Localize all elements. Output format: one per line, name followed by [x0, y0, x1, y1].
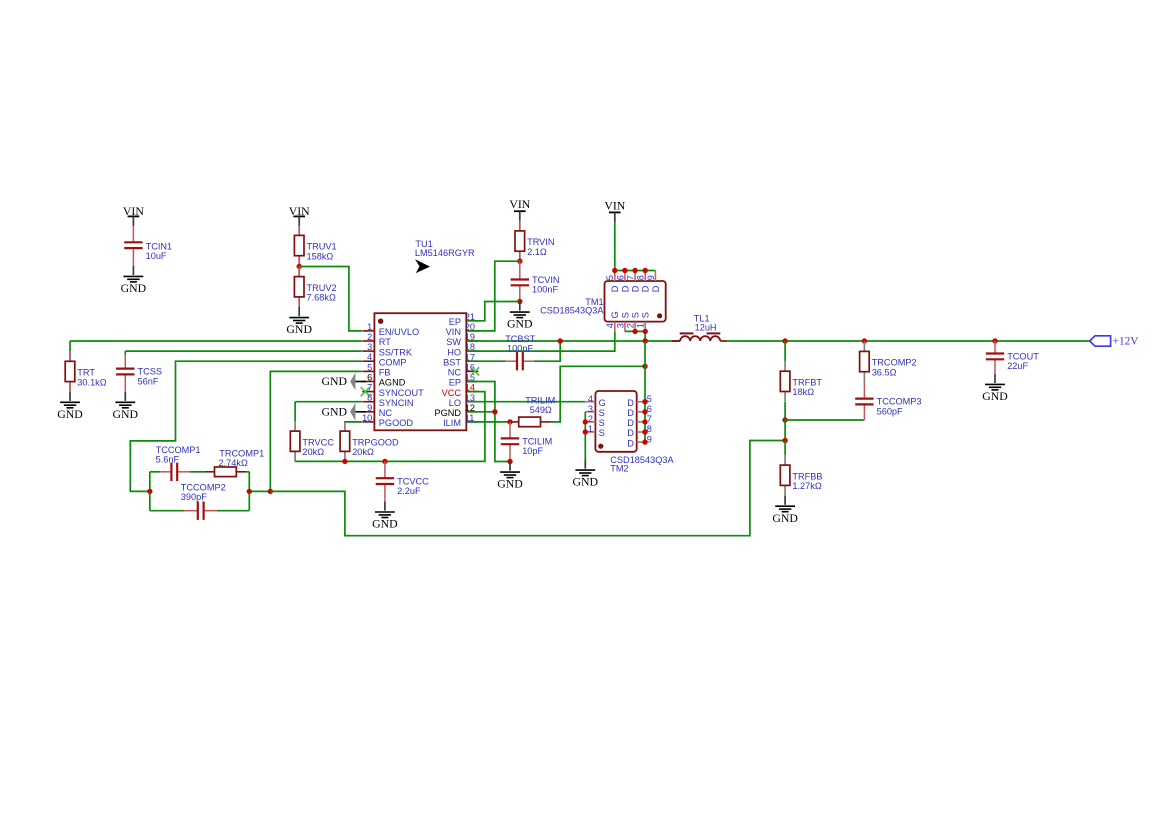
wire HO net to TM1 gate [467, 331, 615, 351]
svg-text:20kΩ: 20kΩ [352, 447, 374, 457]
svg-text:D: D [627, 418, 634, 428]
resistor TRUV2 7.68k [298, 267, 300, 277]
junction TM2 source S1 [583, 429, 588, 434]
svg-text:LM5146RGYR: LM5146RGYR [415, 248, 475, 258]
svg-text:GND: GND [321, 374, 347, 388]
TM1 pin 8 D [644, 271, 646, 282]
junction TRVIN/TCVIN [517, 259, 522, 264]
wire SYNCIN net horizontal [295, 401, 362, 403]
wire comp network left rail [149, 472, 151, 511]
wire comp network right rail [248, 472, 250, 511]
svg-text:EN/UVLO: EN/UVLO [379, 327, 419, 337]
svg-text:D: D [610, 285, 620, 292]
svg-text:18kΩ: 18kΩ [792, 387, 814, 397]
resistor TRCOMP1 2.74k [206, 471, 215, 473]
wire PGND net [467, 411, 495, 413]
svg-text:22uF: 22uF [1007, 361, 1028, 371]
TM1 pin 6 D [624, 271, 626, 282]
svg-text:TRCOMP1: TRCOMP1 [219, 448, 264, 458]
svg-text:TRPGOOD: TRPGOOD [352, 437, 399, 447]
IC pin 17 BST [466, 360, 478, 362]
svg-text:CSD18543Q3A: CSD18543Q3A [540, 305, 604, 315]
svg-text:20kΩ: 20kΩ [302, 447, 324, 457]
ground below TRUV2 [298, 307, 300, 316]
junction TCILIM bottom [507, 459, 512, 464]
svg-text:3: 3 [367, 342, 372, 352]
svg-text:RT: RT [379, 337, 391, 347]
svg-text:8: 8 [636, 275, 646, 280]
svg-text:S: S [641, 312, 651, 318]
capacitor TCVCC 2.2uF [384, 461, 386, 478]
junction TM1 drain pin at x=614.8 [612, 268, 617, 273]
wire FB feedback long wire [270, 441, 783, 536]
ground below TRT [69, 392, 71, 401]
wire EN/UVLO net [299, 267, 362, 331]
junction TM2 drain row 421.9 [642, 419, 647, 424]
svg-text:6: 6 [615, 275, 625, 280]
junction TRPGOOD bottom on VCC rail [342, 459, 347, 464]
svg-text:TRILIM: TRILIM [525, 395, 555, 405]
transistor Q2 TM2 CSD18543Q3A body [595, 391, 636, 452]
junction TM2 source S2 [583, 419, 588, 424]
junction TRUV1/TRUV2/EN [297, 264, 302, 269]
svg-text:TCSS: TCSS [138, 367, 163, 377]
resistor TRILIM 549 [510, 421, 519, 423]
junction SW sense junction [642, 364, 647, 369]
junction TM2 drain row 442.1 [642, 439, 647, 444]
IC pin 7 SYNCOUT [362, 391, 374, 393]
resistor TRPGOOD 20k [344, 421, 346, 431]
pin-1 marker TM2 [598, 444, 603, 449]
TM2 pin 3 S [585, 411, 595, 413]
TM1 pin 3 S [624, 322, 626, 332]
svg-text:D: D [631, 285, 641, 292]
svg-text:9: 9 [646, 275, 656, 280]
svg-text:SYNCIN: SYNCIN [379, 398, 414, 408]
capacitor TCCOMP2 390pF [184, 510, 198, 512]
junction TM1 drain pin at x=624.9 [622, 268, 627, 273]
TM1 pin 4 G [614, 322, 616, 332]
svg-text:FB: FB [379, 368, 391, 378]
ground below TCVCC [384, 501, 386, 510]
capacitor TCCOMP3 560pF [863, 382, 865, 399]
svg-text:390pF: 390pF [181, 492, 207, 502]
junction TM1 source corner [643, 329, 648, 334]
svg-text:EP: EP [449, 378, 461, 388]
svg-text:TRT: TRT [77, 368, 95, 378]
svg-text:TCIN1: TCIN1 [146, 241, 173, 251]
orientation arrow marker [415, 259, 430, 273]
ground below TCILIM [509, 462, 511, 471]
IC pin 11 ILIM [466, 421, 478, 423]
global label +12V [1090, 336, 1111, 346]
svg-text:30.1kΩ: 30.1kΩ [77, 377, 106, 387]
svg-text:10uF: 10uF [146, 251, 167, 261]
svg-text:NC: NC [448, 368, 462, 378]
wire SW rail [467, 340, 680, 342]
wire VCC net rail [295, 392, 485, 462]
svg-text:VIN: VIN [509, 197, 530, 211]
svg-text:549Ω: 549Ω [530, 405, 552, 415]
wire EP15/PGND to GND [467, 382, 508, 462]
pin-1 marker TM1 [657, 313, 662, 318]
svg-text:TRUV2: TRUV2 [307, 283, 337, 293]
wire TM1 drain tie [615, 270, 656, 272]
svg-text:2.1Ω: 2.1Ω [527, 247, 547, 257]
svg-text:TCILIM: TCILIM [522, 437, 552, 447]
capacitor TCILIM 10pF [509, 422, 511, 439]
svg-text:10pF: 10pF [522, 446, 543, 456]
svg-text:PGOOD: PGOOD [379, 418, 414, 428]
svg-text:4: 4 [588, 394, 593, 404]
wire TM1 source tie to SW [625, 331, 645, 341]
wire TM2 source tie [584, 412, 586, 460]
svg-text:100nF: 100nF [507, 343, 533, 353]
wire comp top branch right [246, 471, 249, 473]
resistor TRCOMP2 36.5 [863, 341, 865, 351]
svg-text:SYNCOUT: SYNCOUT [379, 388, 424, 398]
svg-text:EP: EP [449, 317, 461, 327]
svg-text:2: 2 [626, 323, 636, 328]
svg-text:7: 7 [626, 275, 636, 280]
wire SYNCIN net drop [294, 402, 296, 421]
transistor Q1 TM1 CSD18543Q3A body [605, 281, 666, 322]
svg-text:D: D [641, 285, 651, 292]
svg-text:S: S [599, 408, 605, 418]
svg-text:D: D [627, 408, 634, 418]
svg-text:12uH: 12uH [695, 323, 717, 333]
IC pin 10 PGOOD [362, 421, 374, 423]
svg-text:VIN: VIN [446, 327, 461, 337]
IC pin 18 HO [466, 350, 478, 352]
wire comp bottom branch right [217, 510, 249, 512]
svg-text:5.6nF: 5.6nF [156, 454, 180, 464]
IC pin 9 NC [362, 411, 374, 413]
ground below TCVIN [519, 302, 521, 311]
svg-text:GND: GND [57, 407, 83, 421]
pin-1 marker TU1 [378, 319, 383, 324]
svg-text:4: 4 [605, 323, 615, 328]
capacitor TCOUT 22uF [994, 341, 996, 354]
svg-text:100nF: 100nF [532, 285, 558, 295]
svg-text:PGND: PGND [434, 408, 461, 418]
IC pin 1 EN/UVLO [362, 330, 374, 332]
svg-text:D: D [620, 285, 630, 292]
ground below TRFBB [784, 496, 786, 505]
IC pin 3 SS/TRK [362, 350, 374, 352]
no-connect X on pin 16 NC [471, 367, 479, 375]
svg-text:S: S [620, 312, 630, 318]
TM1 pin 2 S [634, 322, 636, 332]
svg-text:1: 1 [367, 322, 372, 332]
TM1 pin 5 D [614, 271, 616, 282]
svg-text:G: G [610, 311, 620, 318]
svg-text:COMP: COMP [379, 357, 407, 367]
svg-text:NC: NC [379, 408, 393, 418]
IC pin 20 VIN [466, 330, 478, 332]
wire FB tap segment [784, 420, 786, 441]
op-amp/IC U1 TU1 LM5146RGYR body [374, 313, 466, 430]
TM2 pin 8 D [637, 431, 645, 433]
svg-text:BST: BST [443, 357, 461, 367]
svg-text:1: 1 [588, 424, 593, 434]
resistor TRT 30.1k [69, 351, 71, 361]
svg-text:560pF: 560pF [877, 406, 903, 416]
svg-text:S: S [599, 418, 605, 428]
wire TCCOMP3 bottom tie [785, 419, 864, 421]
svg-text:2.74kΩ: 2.74kΩ [219, 458, 248, 468]
no-connect X on pin 7 SYNCOUT [361, 387, 370, 396]
svg-text:2: 2 [367, 332, 372, 342]
junction TRFBT/TCCOMP3 [782, 417, 787, 422]
wire ILIM net [467, 421, 510, 423]
wire PGOOD net horizontal [345, 421, 362, 423]
wire SS/TRK net horizontal [125, 350, 362, 352]
capacitor TCBST 100nF [506, 360, 517, 362]
junction comp net left [147, 489, 152, 494]
svg-text:GND: GND [113, 407, 139, 421]
wire VIN pin20 net [467, 261, 520, 331]
svg-text:3: 3 [588, 404, 593, 414]
TM1 pin 9 D [654, 271, 656, 282]
wire comp bottom branch left [150, 510, 184, 512]
junction rail / TCOUT [992, 338, 997, 343]
svg-text:VIN: VIN [604, 198, 625, 212]
svg-text:D: D [627, 398, 634, 408]
svg-text:TCVIN: TCVIN [532, 275, 560, 285]
IC pin 8 SYNCIN [362, 401, 374, 403]
svg-text:2: 2 [588, 414, 593, 424]
TM2 pin 5 D [637, 401, 645, 403]
wire VIN to TM1 drains [614, 222, 616, 271]
svg-text:GND: GND [372, 517, 398, 531]
junction TM1 source tie [632, 329, 637, 334]
svg-text:D: D [627, 428, 634, 438]
wire comp top branch left [150, 471, 160, 473]
svg-text:GND: GND [497, 477, 523, 491]
wire EP pin21 net [467, 302, 520, 321]
svg-text:1.27kΩ: 1.27kΩ [792, 481, 821, 491]
svg-text:HO: HO [447, 347, 461, 357]
junction ILIM junction [507, 419, 512, 424]
svg-text:4: 4 [367, 352, 372, 362]
TM2 pin 6 D [637, 411, 645, 413]
wire TRFBT bottom [784, 402, 786, 420]
IC pin 15 EP [466, 381, 478, 383]
wire rail to TRFBT [784, 341, 786, 361]
junction SW rail / TCBST [558, 338, 563, 343]
wire TRILIM to SW sense [551, 366, 645, 422]
junction TM2 drain row 432.0 [642, 429, 647, 434]
resistor TRFBB 1.27k [784, 455, 786, 465]
svg-text:TCCOMP3: TCCOMP3 [877, 397, 922, 407]
TM2 pin 1 S [585, 431, 595, 433]
IC pin 6 AGND [362, 381, 374, 383]
svg-text:1: 1 [636, 323, 646, 328]
svg-text:SW: SW [446, 337, 461, 347]
svg-text:5: 5 [367, 362, 372, 372]
resistor TRVIN 2.1 [519, 221, 521, 231]
svg-text:TRUV1: TRUV1 [307, 242, 337, 252]
wire TM2 drain tie to SW rail [644, 341, 646, 442]
svg-text:TRVIN: TRVIN [527, 237, 554, 247]
junction rail / TRCOMP2 [862, 338, 867, 343]
svg-text:GND: GND [982, 389, 1008, 403]
capacitor TCIN1 10uF [132, 226, 134, 242]
svg-text:D: D [627, 438, 634, 448]
svg-text:GND: GND [573, 475, 599, 489]
capacitor TCVIN 100nF [519, 261, 521, 279]
resistor TRFBT 18k [784, 361, 786, 371]
IC pin 16 NC [466, 370, 478, 372]
wire output +12V rail [727, 340, 1090, 342]
wire SS/TRK net drop [124, 351, 126, 354]
svg-text:TCCOMP1: TCCOMP1 [156, 445, 201, 455]
svg-text:S: S [599, 428, 605, 438]
junction SW rail / TM1-TM2 [643, 338, 648, 343]
inductor TL1 core bars [680, 332, 694, 334]
svg-text:TRFBT: TRFBT [792, 377, 822, 387]
wire TCBST to SW rail [534, 341, 560, 361]
svg-text:3: 3 [615, 323, 625, 328]
IC pin 19 SW [466, 340, 478, 342]
junction TM2 drain row 401.7 [642, 399, 647, 404]
svg-text:GND: GND [121, 281, 147, 295]
svg-text:TRCOMP2: TRCOMP2 [872, 358, 917, 368]
wire BST net left [467, 360, 506, 362]
svg-text:TCOUT: TCOUT [1007, 352, 1039, 362]
svg-text:9: 9 [367, 403, 372, 413]
svg-text:TM2: TM2 [610, 463, 628, 473]
IC pin 4 COMP [362, 360, 374, 362]
IC pin 2 RT [362, 340, 374, 342]
ground below TCIN1 [132, 266, 134, 275]
svg-text:GND: GND [507, 317, 533, 331]
TM2 pin 2 S [585, 421, 595, 423]
svg-text:TRVCC: TRVCC [302, 437, 334, 447]
svg-text:GND: GND [321, 404, 347, 418]
wire FB net [270, 371, 362, 491]
wire PGOOD drop [344, 420, 346, 423]
svg-text:5: 5 [605, 275, 615, 280]
resistor TRUV1 158k [298, 225, 300, 235]
svg-text:TCVCC: TCVCC [397, 476, 429, 486]
svg-text:AGND: AGND [379, 378, 406, 388]
wire RT net horizontal [70, 340, 362, 342]
junction TM2 drain row 411.8 [642, 409, 647, 414]
junction comp net right [247, 489, 252, 494]
inductor TL1 12uH [680, 336, 720, 341]
junction FB tap junction [268, 489, 273, 494]
junction PGND junction [492, 409, 497, 414]
svg-text:36.5Ω: 36.5Ω [872, 367, 897, 377]
junction TM1 drain pin at x=635.1 [632, 268, 637, 273]
wire RT net drop [69, 341, 71, 351]
svg-text:D: D [651, 285, 661, 292]
svg-text:56nF: 56nF [138, 376, 159, 386]
TM2 pin 9 D [637, 441, 645, 443]
svg-text:10: 10 [362, 413, 372, 423]
svg-text:7.68kΩ: 7.68kΩ [307, 293, 336, 303]
svg-text:ILIM: ILIM [443, 418, 461, 428]
ground below TM2 sources [584, 460, 586, 469]
svg-text:TRFBB: TRFBB [792, 471, 822, 481]
IC pin 13 LO [466, 401, 478, 403]
svg-text:GND: GND [286, 322, 312, 336]
IC pin 14 VCC [466, 391, 478, 393]
svg-text:GND: GND [772, 511, 798, 525]
ground below TCOUT [994, 374, 996, 383]
svg-text:VCC: VCC [442, 388, 462, 398]
IC pin 5 FB [362, 370, 374, 372]
IC pin 21 EP [466, 320, 478, 322]
svg-text:6: 6 [367, 373, 372, 383]
svg-text:TCCOMP2: TCCOMP2 [181, 483, 226, 493]
junction FB tap [782, 438, 787, 443]
svg-text:158kΩ: 158kΩ [307, 251, 334, 261]
wire LO net to TM2 gate [467, 401, 585, 403]
IC pin 12 PGND [466, 411, 478, 413]
svg-text:LO: LO [449, 398, 461, 408]
capacitor TCSS 56nF [124, 355, 126, 369]
TM1 pin 1 S [644, 322, 646, 332]
svg-text:2.2uF: 2.2uF [397, 486, 421, 496]
ground below TCSS [124, 392, 126, 401]
resistor TRVCC 20k [294, 421, 296, 431]
wire comp net to FB [249, 490, 270, 492]
svg-text:SS/TRK: SS/TRK [379, 347, 413, 357]
TM2 pin 7 D [637, 421, 645, 423]
junction TCVCC top on VCC rail [382, 459, 387, 464]
wire comp top branch mid [190, 471, 206, 473]
junction TCVIN bottom [517, 299, 522, 304]
junction TM1 drain pin at x=645.2 [643, 268, 648, 273]
TM2 pin 4 G [585, 401, 595, 403]
TM1 pin 7 D [634, 271, 636, 282]
svg-text:+12V: +12V [1113, 336, 1140, 348]
svg-text:S: S [631, 312, 641, 318]
wire to TRFBB [784, 441, 786, 455]
svg-text:G: G [599, 398, 606, 408]
capacitor TCCOMP1 5.6nF [160, 471, 171, 473]
junction rail / TRFBT [782, 338, 787, 343]
wire COMP to compensation network [130, 361, 362, 491]
